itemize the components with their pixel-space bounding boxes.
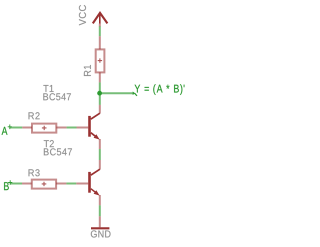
- power VCC: [93, 13, 108, 27]
- resistor R2 pin 1: [22, 127, 32, 129]
- transistor T1 collector pin: [99, 105, 101, 114]
- resistor R1 pin 1: [99, 36, 101, 49]
- label R2: [29, 112, 40, 119]
- resistor R3 pin 2: [56, 183, 66, 185]
- label GND: [91, 230, 111, 237]
- port B: [4, 180, 12, 190]
- wire node to label Y: [100, 92, 134, 94]
- resistor R3 pin 1: [22, 183, 32, 185]
- wire B to R3: [10, 183, 22, 185]
- value BC547 of T1: [43, 93, 71, 100]
- label T2: [44, 140, 54, 147]
- junction node Y: [97, 91, 102, 96]
- resistor R1: [96, 49, 105, 72]
- label T1: [43, 85, 53, 92]
- ground: [91, 216, 109, 228]
- wire A to R2: [10, 127, 22, 129]
- resistor R2: [32, 124, 56, 133]
- wire T2 emitter to GND: [99, 205, 101, 216]
- transistor T1: [88, 116, 100, 140]
- wire VCC to R1: [99, 26, 101, 36]
- label arrow: [133, 92, 137, 96]
- transistor T2: [88, 172, 100, 196]
- wire R3 to T2 base: [66, 183, 76, 185]
- transistor T1 base pin: [77, 127, 89, 129]
- wire T1 emitter to T2 collector: [99, 149, 101, 160]
- transistor T2 collector pin: [99, 160, 101, 169]
- port A: [2, 125, 12, 135]
- label R3: [29, 169, 40, 176]
- transistor T1 emitter pin: [99, 139, 101, 149]
- value BC547 of T2: [44, 148, 72, 155]
- transistor T2 emitter pin: [99, 195, 101, 205]
- transistor T2 base pin: [76, 183, 88, 185]
- resistor R1 pin 2: [99, 72, 101, 82]
- label R1: [84, 65, 91, 76]
- resistor R3: [32, 180, 56, 189]
- net label Y = (A * B)': [135, 84, 185, 95]
- wire R1 to node Y: [99, 82, 101, 93]
- label VCC: [79, 5, 86, 25]
- wire node to T1 collector: [99, 95, 101, 105]
- resistor R2 pin 2: [56, 127, 66, 129]
- wire R2 to T1 base: [67, 127, 77, 129]
